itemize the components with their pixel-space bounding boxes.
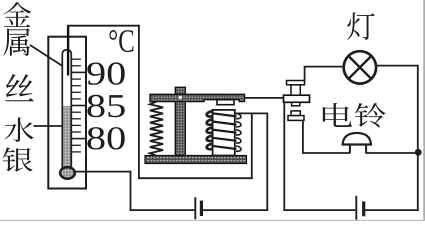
wire: bottom right segment	[283, 209, 355, 211]
movable contact stub	[292, 102, 300, 106]
unit label ℃	[109, 30, 133, 52]
upper contact stem	[291, 85, 300, 95]
wire: left vertical down to relay board	[138, 25, 140, 178]
label 属	[3, 28, 30, 56]
wire: thermometer top to relay (top horizontal)	[67, 25, 139, 27]
leader line from 金属丝 to metal wire	[30, 45, 63, 66]
battery B1 long plate	[194, 197, 196, 219]
electric bell dome	[343, 133, 371, 145]
wire: right edge vertical	[417, 65, 419, 210]
battery B2 long plate	[355, 196, 357, 220]
relay board right edge	[251, 113, 253, 179]
wire: armature to movable contact	[245, 97, 284, 99]
thermometer bulb (mercury)	[60, 167, 75, 179]
relay board bottom edge	[138, 177, 252, 179]
label 银	[3, 147, 33, 171]
pivot dot	[179, 96, 182, 99]
wire: coil to right vertical	[235, 112, 267, 114]
wire: left bottom vertical	[130, 171, 132, 210]
wire: bulb to bottom-left corner	[74, 171, 131, 173]
wire: lower contact down	[302, 120, 304, 153]
relay pivot post	[175, 87, 185, 155]
relay base	[145, 156, 247, 164]
battery B1 short plate	[200, 201, 203, 216]
label 水	[4, 118, 33, 143]
wire: battery B2 to right corner	[365, 209, 419, 211]
relay coil windings	[207, 111, 241, 151]
upper contact top bar	[287, 81, 305, 85]
thermometer enclosure box	[48, 37, 86, 189]
wire: bell to right edge	[366, 152, 418, 154]
wire: horizontal to lamp	[304, 66, 344, 68]
wire: vertical down to battery B1	[266, 113, 268, 211]
wire: bottom left segment to battery B1	[130, 209, 195, 211]
wire: battery B1 to coil wire	[203, 209, 269, 211]
wire: upper contact up to lamp wire	[304, 67, 306, 82]
bell right leg	[365, 145, 367, 154]
armature contact pad	[217, 100, 234, 105]
relay coil core	[213, 110, 235, 156]
relay spring	[150, 102, 163, 156]
bell left leg	[349, 145, 351, 154]
scan edge artifact bottom	[0, 219, 425, 221]
lower contact base bar	[288, 116, 304, 121]
label 金	[3, 2, 31, 27]
scale label 80	[87, 127, 124, 149]
battery B2 short plate	[362, 201, 365, 216]
label 电	[323, 103, 352, 127]
junction node	[415, 149, 422, 156]
scan edge artifact right	[423, 0, 425, 221]
relay armature bar	[150, 94, 245, 101]
scale label 85	[87, 95, 124, 117]
mercury column	[63, 106, 70, 169]
lower contact stem	[291, 111, 300, 116]
metal wire inside tube	[67, 26, 69, 76]
label 铃	[355, 103, 386, 127]
wire: lamp to right edge	[376, 65, 418, 67]
thermometer tube	[62, 50, 71, 168]
scale label 90	[87, 62, 124, 84]
label 灯	[347, 13, 374, 40]
lamp L1	[344, 51, 376, 83]
movable contact bar	[284, 95, 310, 102]
thermometer scale ticks	[72, 59, 87, 152]
wire: to bell left leg	[302, 152, 350, 154]
label 丝	[5, 74, 33, 101]
leader line from 水银 to mercury	[34, 125, 62, 127]
wire: movable contact down to battery B2	[283, 102, 285, 210]
